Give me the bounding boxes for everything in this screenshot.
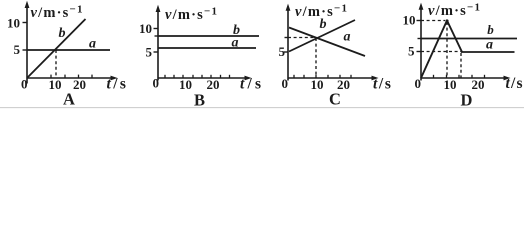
graph D origin label 0 xyxy=(415,76,422,91)
svg-text:D: D xyxy=(461,91,473,110)
graph D axis label v/m·s⁻¹ xyxy=(428,2,481,20)
graph D label b xyxy=(487,22,494,37)
graph D y tick 5 xyxy=(417,51,422,53)
graph D dashed vertical at peak xyxy=(446,22,448,78)
svg-text:b: b xyxy=(59,26,66,41)
graph B y label 10 xyxy=(139,21,152,36)
graph C line b (rising) xyxy=(289,20,355,52)
graph A y label 10 xyxy=(7,16,20,31)
svg-text:a: a xyxy=(232,36,239,51)
svg-text:5: 5 xyxy=(14,42,21,57)
graph D dashed horizontal to peak xyxy=(421,20,445,22)
graph D line a solid segment xyxy=(461,51,515,53)
graph B x label 10 xyxy=(179,77,192,92)
graph D y tick 10 xyxy=(417,20,422,22)
svg-text:10: 10 xyxy=(444,77,457,92)
graph C y label 5 xyxy=(279,44,286,59)
graph A label b xyxy=(59,26,66,41)
graph C dashed vertical t=10 xyxy=(315,38,317,78)
svg-text:5: 5 xyxy=(146,45,153,60)
graph D x-axis xyxy=(421,76,511,81)
graph A line a (horizontal v=5) xyxy=(27,49,110,51)
graph B y tick 5 xyxy=(154,51,159,53)
svg-text:10: 10 xyxy=(49,77,62,92)
svg-text:20: 20 xyxy=(207,77,220,92)
svg-text:10: 10 xyxy=(403,13,416,28)
svg-text:20: 20 xyxy=(472,77,485,92)
graph D dashed vertical at junction xyxy=(460,53,462,78)
graph B label b xyxy=(233,23,240,38)
graph B x-axis xyxy=(158,76,252,81)
svg-text:t/s: t/s xyxy=(506,75,524,92)
svg-text:5: 5 xyxy=(408,44,415,59)
graph A axis label t/s xyxy=(107,76,129,93)
graph C x ticks xyxy=(294,75,351,78)
svg-text:10: 10 xyxy=(139,21,152,36)
graph D y label 5 xyxy=(408,44,415,59)
graph A x-axis xyxy=(27,76,118,81)
svg-text:a: a xyxy=(344,30,351,45)
graph D x label 10 xyxy=(444,77,457,92)
graph B axis label t/s xyxy=(240,76,264,93)
graph C axis label t/s xyxy=(373,76,392,93)
graph C dashed horizontal to crossing xyxy=(288,37,316,39)
graph C caption C xyxy=(329,90,341,109)
graph C origin label 0 xyxy=(282,76,289,91)
graph B x ticks xyxy=(165,75,230,78)
svg-text:b: b xyxy=(320,17,327,32)
graph B axis label v/m·s⁻¹ xyxy=(165,6,218,24)
graph B x label 20 xyxy=(207,77,220,92)
graph D x label 20 xyxy=(472,77,485,92)
graph B caption B xyxy=(194,91,205,110)
svg-text:A: A xyxy=(63,90,75,109)
graph A x label 20 xyxy=(73,77,86,92)
svg-text:a: a xyxy=(89,37,96,52)
graph A x label 10 xyxy=(49,77,62,92)
graph A x ticks xyxy=(51,75,92,78)
graph A y tick 5 xyxy=(23,49,28,51)
graph D x ticks xyxy=(434,75,485,78)
graph C y tick at crossing level xyxy=(285,37,289,39)
graph C label b xyxy=(320,17,327,32)
graph D y label 10 xyxy=(403,13,416,28)
graph C label a xyxy=(344,30,351,45)
graph D line a dashed segment xyxy=(421,51,461,53)
graph A dashed vertical t=10 xyxy=(55,50,57,78)
graph C x label 20 xyxy=(337,77,350,92)
graph A label a xyxy=(89,37,96,52)
graph B line b (upper horizontal) xyxy=(158,35,259,37)
graph D axis label t/s xyxy=(506,75,524,92)
graph A y-axis xyxy=(25,1,30,84)
graph A caption A xyxy=(63,90,75,109)
graph C axis label v/m·s⁻¹ xyxy=(295,3,348,21)
graph A y tick 10 xyxy=(23,22,28,24)
graph C line a (descending) xyxy=(289,28,365,57)
svg-text:10: 10 xyxy=(311,77,324,92)
graph A line b (rising through origin) xyxy=(27,19,86,78)
svg-text:B: B xyxy=(194,91,205,110)
graph A origin label 0 xyxy=(21,77,28,92)
svg-text:0: 0 xyxy=(21,77,28,92)
svg-text:10: 10 xyxy=(179,77,192,92)
graph D line b (upper horizontal) xyxy=(421,38,517,40)
graph D triangle apex xyxy=(445,19,448,22)
svg-text:0: 0 xyxy=(415,76,422,91)
svg-text:0: 0 xyxy=(282,76,289,91)
graph C x label 10 xyxy=(311,77,324,92)
graph B y-axis xyxy=(156,5,161,81)
graph D y tick at line b level xyxy=(418,38,422,40)
graph D label a xyxy=(486,38,493,53)
graph C y tick 5 xyxy=(284,51,289,53)
graph B line a (lower horizontal) xyxy=(158,47,256,49)
graph A axis label v/m·s⁻¹ xyxy=(31,4,84,22)
svg-text:b: b xyxy=(487,22,494,37)
svg-text:a: a xyxy=(486,38,493,53)
graph D caption D xyxy=(461,91,473,110)
svg-text:C: C xyxy=(329,90,341,109)
graph B y tick 10 xyxy=(154,28,159,30)
graph B y label 5 xyxy=(146,45,153,60)
svg-text:t/s: t/s xyxy=(107,76,129,93)
svg-text:10: 10 xyxy=(7,16,20,31)
graph C y-axis xyxy=(286,4,291,81)
graph B y tick at line b level xyxy=(155,35,159,37)
graph B label a xyxy=(232,36,239,51)
bottom rule xyxy=(0,107,524,109)
graph B origin label 0 xyxy=(153,76,160,91)
svg-text:t/s: t/s xyxy=(373,76,392,93)
svg-text:0: 0 xyxy=(153,76,160,91)
graph C x-axis xyxy=(288,76,379,81)
graph D triangle rising edge xyxy=(421,21,447,79)
svg-text:5: 5 xyxy=(279,44,286,59)
graph D y-axis xyxy=(419,3,424,81)
svg-text:t/s: t/s xyxy=(240,76,264,93)
graph A y label 5 xyxy=(14,42,21,57)
graph D triangle falling edge xyxy=(447,21,462,53)
